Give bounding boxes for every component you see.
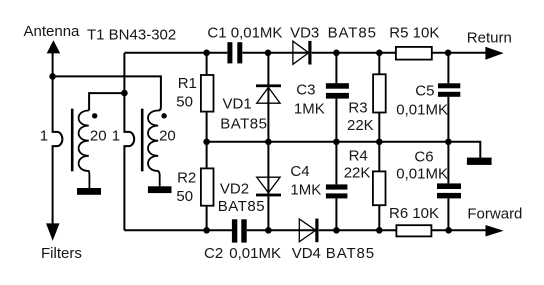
wire bottom rail segment 3 (319, 229, 397, 231)
svg-text:0,01MK: 0,01MK (396, 166, 448, 183)
ground left transformer (77, 188, 101, 195)
svg-text:VD1: VD1 (223, 95, 252, 112)
svg-text:50: 50 (176, 188, 193, 205)
diode VD1 (256, 84, 281, 103)
svg-text:VD3: VD3 (290, 25, 319, 42)
wire C3 to middle rail (335, 99, 337, 142)
diode VD3 (293, 41, 312, 65)
wire jog from node to left winding (89, 93, 124, 110)
svg-text:R6 10K: R6 10K (389, 205, 439, 222)
svg-text:BAT85: BAT85 (220, 115, 267, 132)
capacitor C2 (232, 219, 247, 242)
wire R2 to bottom rail (206, 206, 208, 231)
ground right side (467, 158, 492, 165)
svg-text:R4: R4 (349, 147, 368, 164)
svg-text:R5 10K: R5 10K (389, 25, 439, 42)
return arrow (485, 47, 503, 60)
antenna arrow (47, 40, 61, 53)
svg-text:C4: C4 (290, 163, 309, 180)
wire R1 to middle rail (206, 112, 208, 142)
filters arrow (46, 223, 60, 240)
svg-text:22K: 22K (347, 117, 374, 134)
svg-text:Forward: Forward (467, 206, 522, 223)
wire top rail segment 4 (432, 52, 486, 54)
transformer T1 left core bar (71, 109, 74, 172)
resistor R3 (373, 74, 386, 112)
svg-text:0,01MK: 0,01MK (229, 245, 281, 262)
transformer T1 left secondary winding 20t (79, 111, 90, 189)
wire C6 to bottom rail (447, 198, 449, 230)
wire R4 to bottom rail (378, 205, 380, 230)
diode VD2 (256, 177, 281, 196)
svg-text:20: 20 (159, 128, 176, 145)
svg-text:1MK: 1MK (290, 182, 321, 199)
diode VD4 (299, 219, 318, 243)
wire R1 column (206, 53, 208, 75)
svg-text:C2: C2 (204, 245, 223, 262)
svg-text:20: 20 (90, 128, 107, 145)
wire bottom rail segment 4 (431, 229, 485, 231)
wire bottom rail segment 1 (124, 229, 231, 231)
svg-text:C1 0,01MK: C1 0,01MK (207, 25, 282, 42)
wire middle rail to C6 (447, 142, 449, 184)
svg-text:C5: C5 (415, 83, 434, 100)
wire antenna vertical line with 1-turn bump (53, 53, 63, 224)
wire C5 top (447, 53, 449, 84)
wire top rail segment 1 (124, 52, 227, 54)
capacitor C4 (326, 184, 348, 198)
svg-text:BAT85: BAT85 (328, 25, 377, 42)
capacitor C3 (326, 83, 349, 98)
svg-text:1: 1 (112, 128, 120, 145)
svg-text:VD4: VD4 (292, 245, 321, 262)
resistor R6 (396, 225, 431, 236)
wire R3 to middle rail (378, 113, 380, 142)
wire C4 to bottom rail (335, 198, 337, 230)
svg-text:VD2: VD2 (220, 180, 249, 197)
ground right transformer (148, 186, 172, 193)
svg-text:50: 50 (176, 94, 193, 111)
wire R3 top (378, 53, 380, 75)
svg-text:Antenna: Antenna (24, 23, 81, 40)
node junction dots (49, 50, 452, 234)
forward arrow (486, 225, 504, 237)
svg-text:1MK: 1MK (294, 101, 325, 118)
svg-text:T1 BN43-302: T1 BN43-302 (87, 27, 176, 44)
wire C3 top (335, 53, 337, 83)
resistor R5 (396, 47, 432, 60)
wire line B vertical with 1-turn bump (124, 53, 134, 230)
wire bottom rail segment 2 (247, 229, 315, 231)
svg-text:22K: 22K (344, 165, 371, 182)
wire top rail segment 2 (243, 52, 309, 54)
wire VD1 VD2 column (267, 53, 269, 231)
wire middle rail to R4 (378, 142, 380, 172)
resistor R1 (201, 75, 214, 112)
resistor R4 (373, 171, 386, 205)
svg-text:R2: R2 (177, 170, 196, 187)
capacitor C5 (438, 83, 460, 97)
svg-text:Return: Return (467, 29, 512, 46)
transformer T1 right core bar (141, 109, 144, 172)
wire top rail segment 3 (312, 52, 396, 54)
transformer T1 right secondary winding 20t (148, 111, 160, 187)
svg-text:BAT85: BAT85 (218, 198, 265, 215)
svg-text:C3: C3 (296, 82, 315, 99)
wire middle rail to R2 (206, 142, 208, 169)
svg-text:Filters: Filters (41, 245, 82, 262)
transformer T1 right phase dot (161, 113, 166, 118)
svg-text:1: 1 (40, 128, 48, 145)
wire horizontal from antenna node to right winding (53, 76, 161, 110)
svg-text:BAT85: BAT85 (326, 245, 375, 262)
wire middle rail with drop to ground (207, 142, 481, 158)
svg-text:R3: R3 (348, 100, 367, 117)
svg-text:0,01MK: 0,01MK (396, 102, 448, 119)
transformer T1 left phase dot (92, 113, 97, 118)
svg-text:R1: R1 (178, 75, 197, 92)
svg-text:C6: C6 (414, 148, 433, 165)
capacitor C6 (437, 183, 461, 198)
resistor R2 (201, 168, 214, 205)
wire middle rail to C4 (335, 142, 337, 185)
wire C5 to middle rail (447, 97, 449, 142)
capacitor C1 (227, 42, 242, 63)
